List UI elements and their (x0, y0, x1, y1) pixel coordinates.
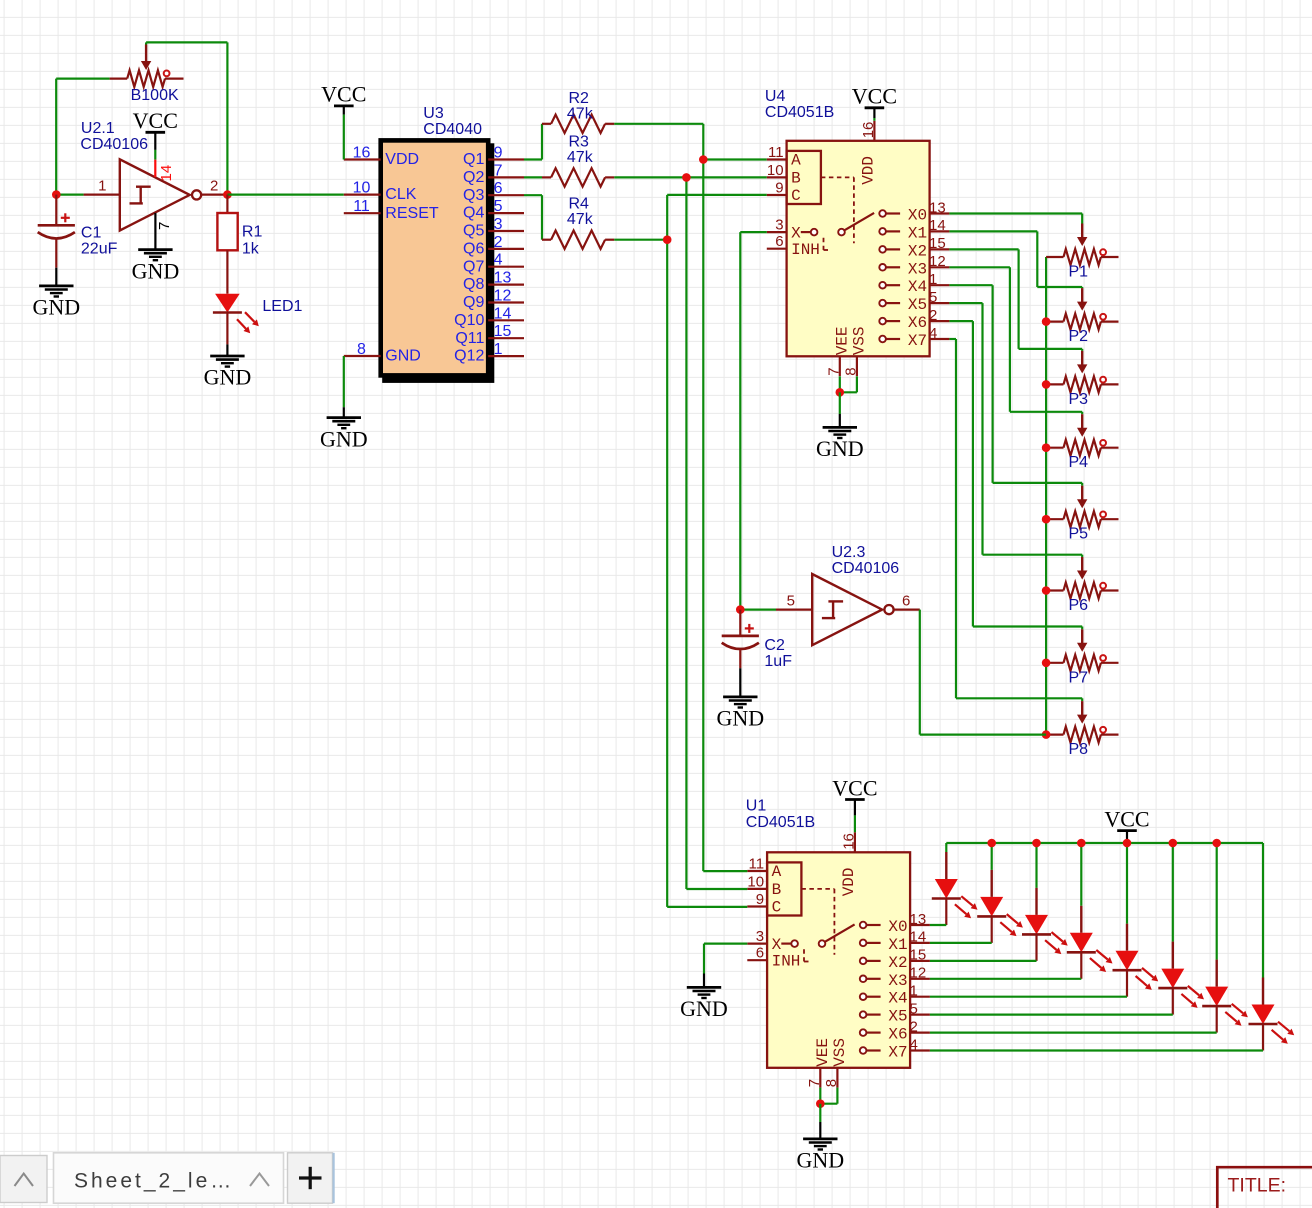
svg-text:GND: GND (204, 365, 252, 390)
svg-text:LED1: LED1 (262, 298, 302, 315)
junction P6 (1042, 586, 1051, 595)
svg-text:16: 16 (860, 122, 877, 139)
mux U1 VDD pin 16 (854, 832, 856, 852)
wire anode D2 (991, 843, 993, 870)
op-amp U2.1 input pin 1 (84, 194, 120, 196)
svg-text:6: 6 (494, 180, 503, 197)
LED D1 (945, 852, 947, 879)
mux U4 switch (801, 231, 811, 233)
LED D3 (1035, 888, 1037, 915)
svg-text:X1: X1 (908, 224, 927, 242)
wire A to U1 (703, 870, 747, 872)
svg-text:Q1: Q1 (463, 151, 484, 168)
svg-text:Q8: Q8 (463, 276, 484, 293)
bus C down to U1 (666, 240, 668, 907)
wire anode D4 (1080, 843, 1082, 906)
svg-text:47k: 47k (567, 149, 594, 166)
mux U4 body (787, 141, 930, 356)
svg-text:CD4051B: CD4051B (746, 814, 815, 831)
counter U3 shadow (382, 143, 494, 383)
potentiometer P5 (1046, 518, 1063, 520)
mux U4 VDD pin 16 (873, 121, 875, 141)
mux U4 control dashes (821, 176, 854, 178)
svg-text:5: 5 (929, 289, 937, 306)
LED LED1 (215, 294, 240, 313)
capacitor C1 bottom lead (55, 240, 57, 268)
svg-text:X4: X4 (888, 990, 907, 1008)
svg-text:Q9: Q9 (463, 294, 484, 311)
junction P3 (1042, 380, 1051, 389)
junction node B (682, 173, 691, 182)
wire X3 U1 to D4 (930, 978, 1081, 980)
ground C1 (39, 284, 73, 287)
capacitor C2 (722, 635, 759, 638)
svg-text:3: 3 (775, 217, 783, 234)
svg-text:10: 10 (767, 162, 784, 179)
wire U1 X to ground (704, 942, 747, 944)
svg-text:16: 16 (840, 833, 857, 850)
svg-text:11: 11 (768, 144, 784, 161)
wire X7 U1 to D8 (930, 1049, 1263, 1051)
wire Q2 to R3 (524, 176, 542, 178)
svg-text:Sheet_2_le…: Sheet_2_le… (74, 1170, 234, 1193)
svg-text:U2.1: U2.1 (81, 120, 115, 137)
LED D8 cathode lead (1262, 1024, 1264, 1051)
svg-text:10: 10 (353, 180, 371, 197)
LED D6 cathode lead (1172, 988, 1174, 1015)
svg-text:8: 8 (823, 1079, 840, 1087)
svg-text:5: 5 (910, 1000, 918, 1017)
capacitor C2 bottom lead (739, 650, 741, 668)
svg-text:CD4040: CD4040 (423, 121, 482, 138)
counter U3 right pins Q1-Q12 (488, 158, 524, 160)
tab pane-collapse button (0, 1156, 47, 1203)
resistor R1 lead top (226, 195, 228, 214)
potentiometer P7 (1046, 662, 1063, 664)
svg-text:GND: GND (385, 348, 421, 365)
wire U4 VSS (856, 376, 858, 392)
VCC rail (946, 842, 1263, 844)
svg-text:GND: GND (796, 1148, 844, 1173)
svg-text:Q5: Q5 (463, 223, 484, 240)
mux U4 VEE VSS pins (839, 356, 841, 376)
svg-text:GND: GND (680, 996, 728, 1021)
LED D7 (1215, 960, 1217, 987)
svg-text:X2: X2 (908, 242, 927, 260)
svg-text:B100K: B100K (131, 87, 179, 104)
wire VCC to pin 14 (154, 150, 156, 160)
svg-text:U2.3: U2.3 (832, 544, 866, 561)
resistor R4 (542, 239, 551, 241)
svg-text:P7: P7 (1069, 669, 1089, 686)
wire U3 GND pin (343, 356, 345, 407)
potentiometer P4 (1046, 447, 1063, 449)
svg-text:13: 13 (929, 199, 946, 216)
svg-text:VDD: VDD (859, 156, 877, 185)
wire X2 to P3 wiper (949, 248, 1018, 250)
svg-text:14: 14 (494, 305, 512, 322)
junction P4 (1042, 443, 1051, 452)
svg-text:14: 14 (929, 217, 946, 234)
bus B down to U1 (685, 177, 687, 889)
new sheet button (288, 1153, 333, 1203)
svg-text:P4: P4 (1069, 454, 1089, 471)
svg-text:16: 16 (353, 145, 371, 162)
junction rail D4 (1077, 839, 1086, 848)
resistor R1 (217, 213, 237, 250)
wire C to U1 (667, 906, 747, 908)
svg-text:8: 8 (357, 341, 366, 358)
junction rail D2 (987, 839, 996, 848)
LED D4 (1080, 906, 1082, 933)
wire VCC to U4 VDD (873, 118, 875, 121)
svg-text:9: 9 (494, 145, 503, 162)
LED D1 cathode lead (945, 899, 947, 926)
svg-text:X7: X7 (908, 332, 927, 350)
inverter U2.3 (812, 574, 882, 645)
wire X0 to P1 wiper (949, 212, 1082, 214)
svg-text:VEE: VEE (814, 1038, 832, 1067)
svg-text:Q10: Q10 (454, 312, 484, 329)
svg-text:CD4051B: CD4051B (765, 104, 834, 121)
svg-text:11: 11 (749, 856, 765, 873)
junction C1 input (52, 190, 61, 199)
LED D5 (1126, 924, 1128, 951)
wire X1 to P2 wiper (949, 230, 1037, 232)
wire U2.3 out to P8 (919, 610, 921, 735)
LED D8 (1262, 978, 1264, 1005)
wire feedback top (146, 41, 227, 43)
svg-text:Q12: Q12 (454, 348, 484, 365)
svg-text:X0: X0 (888, 918, 907, 936)
svg-text:47k: 47k (567, 211, 594, 228)
junction P5 (1042, 515, 1051, 524)
junction U2.1 output (223, 190, 232, 199)
wire output to CLK (227, 194, 343, 196)
svg-text:GND: GND (32, 295, 80, 320)
svg-text:7: 7 (825, 367, 842, 375)
svg-text:4: 4 (910, 1036, 918, 1053)
junction U4 ground (836, 388, 845, 397)
wire X6 to P7 wiper (949, 320, 973, 322)
svg-text:Q3: Q3 (463, 187, 484, 204)
svg-text:Q11: Q11 (455, 330, 484, 347)
wire B to U1 (686, 888, 747, 890)
svg-text:C2: C2 (764, 637, 785, 654)
wire pot left vertical (55, 79, 57, 195)
svg-text:B: B (791, 170, 801, 188)
resistor R3 (542, 176, 551, 178)
svg-text:X1: X1 (888, 936, 907, 954)
svg-text:X6: X6 (908, 314, 927, 332)
wire U1 VSS (836, 1088, 838, 1104)
junction P8 (1042, 730, 1051, 739)
svg-text:VCC: VCC (133, 108, 178, 133)
svg-text:RESET: RESET (385, 205, 439, 222)
LED D2 (991, 870, 993, 897)
mux U1 control dashes (801, 888, 834, 890)
svg-text:VDD: VDD (840, 867, 858, 896)
svg-text:VCC: VCC (832, 775, 877, 800)
svg-text:1: 1 (494, 341, 503, 358)
pot bus vertical (1045, 257, 1047, 735)
potentiometer P2 (1046, 321, 1063, 323)
wire feedback right (226, 42, 228, 194)
junction rail D5 (1123, 839, 1132, 848)
capacitor C1 (38, 224, 75, 227)
ground U2.1 pin7 (138, 248, 172, 251)
svg-text:7: 7 (156, 222, 173, 230)
node B wire to U4 (686, 176, 766, 178)
svg-text:13: 13 (910, 911, 927, 928)
svg-text:P6: P6 (1069, 597, 1089, 614)
LED D5 cathode lead (1126, 970, 1128, 997)
svg-text:U3: U3 (423, 105, 444, 122)
capacitor C2 lead (739, 610, 741, 636)
svg-text:7: 7 (494, 162, 503, 179)
wire R3 to node B (614, 176, 686, 178)
junction rail D7 (1212, 839, 1221, 848)
svg-text:VCC: VCC (852, 84, 897, 109)
wire anode D8 (1262, 843, 1264, 978)
svg-text:VCC: VCC (1104, 806, 1149, 831)
wire X1 U1 to D2 (930, 942, 992, 944)
svg-text:7: 7 (806, 1079, 823, 1087)
wire U4 ground (839, 392, 841, 414)
svg-text:3: 3 (756, 928, 764, 945)
wire X0 U1 to D1 (930, 924, 946, 926)
svg-text:22uF: 22uF (81, 241, 118, 258)
potentiometer P6 (1046, 589, 1063, 591)
ground U1 (803, 1138, 837, 1141)
svg-text:X5: X5 (908, 296, 927, 314)
svg-text:INH: INH (772, 952, 801, 970)
LED D2 cathode lead (991, 916, 993, 943)
wire X3 to P4 wiper (949, 266, 1010, 268)
wire U4 VEE (839, 376, 841, 392)
ground LED1 (210, 355, 244, 358)
junction rail D6 (1169, 839, 1178, 848)
svg-text:C: C (791, 187, 801, 205)
resistor R2 (542, 123, 551, 125)
counter U3 left pins (344, 158, 381, 160)
svg-text:11: 11 (353, 198, 370, 215)
mux U1 VEE VSS pins (819, 1068, 821, 1088)
wire C2 node to U2.3 (740, 608, 776, 610)
svg-text:15: 15 (910, 947, 927, 964)
svg-text:A: A (791, 152, 801, 170)
potentiometer B100K wiper wire (145, 42, 147, 44)
svg-text:6: 6 (775, 233, 783, 250)
junction P2 (1042, 317, 1051, 326)
wire X5 to P6 wiper (949, 302, 982, 304)
svg-text:A: A (772, 863, 782, 881)
bus A down to U1 (702, 160, 704, 872)
ground U4 (823, 426, 857, 429)
svg-text:GND: GND (816, 436, 864, 461)
svg-text:Q6: Q6 (463, 241, 484, 258)
svg-text:Q7: Q7 (463, 258, 484, 275)
sheet tab (54, 1153, 284, 1203)
wire X5 U1 to D6 (930, 1013, 1173, 1015)
svg-text:X0: X0 (908, 207, 927, 225)
inverter U2.3 input pin 5 (776, 608, 812, 610)
svg-text:1: 1 (910, 983, 918, 1000)
svg-text:CD40106: CD40106 (80, 136, 148, 153)
wire U2.1 input (56, 194, 83, 196)
ground U3 (327, 416, 361, 419)
svg-text:TITLE:: TITLE: (1228, 1174, 1287, 1196)
svg-text:9: 9 (756, 891, 764, 908)
wire anode D6 (1172, 843, 1174, 942)
wire Q3 to R4 (524, 194, 542, 196)
svg-text:12: 12 (494, 288, 512, 305)
mux U4 channels X0-X7 (879, 210, 886, 217)
svg-text:X: X (791, 224, 801, 242)
svg-text:47k: 47k (567, 105, 594, 122)
svg-text:GND: GND (320, 426, 368, 451)
wire R2 to node A (614, 123, 703, 125)
junction node C (663, 235, 672, 244)
op-amp U2.1 output pin 2 (201, 194, 227, 196)
svg-text:3: 3 (494, 216, 503, 233)
LED D3 cathode lead (1035, 934, 1037, 961)
junction P7 (1042, 659, 1051, 668)
wire VCC to U3 VDD (343, 115, 345, 160)
svg-text:15: 15 (494, 323, 512, 340)
svg-text:P2: P2 (1069, 328, 1089, 345)
svg-text:12: 12 (929, 253, 946, 270)
LED D7 cathode lead (1216, 1006, 1218, 1033)
svg-text:15: 15 (929, 235, 946, 252)
wire U1 VEE (819, 1088, 821, 1104)
pin 14 red (154, 160, 156, 177)
svg-text:X7: X7 (888, 1044, 907, 1062)
svg-text:2: 2 (929, 307, 937, 324)
svg-text:P3: P3 (1069, 391, 1089, 408)
svg-text:14: 14 (910, 929, 927, 946)
pin 7 black (154, 213, 156, 250)
counter U3 body (381, 140, 489, 375)
ground U1 X (687, 986, 721, 989)
title block border (1217, 1167, 1312, 1208)
svg-text:1uF: 1uF (764, 653, 792, 670)
svg-text:X2: X2 (888, 954, 907, 972)
wire X4 U1 to D5 (930, 996, 1127, 998)
svg-text:R1: R1 (242, 224, 263, 241)
svg-text:8: 8 (843, 367, 860, 375)
wire anode D7 (1216, 843, 1218, 960)
svg-text:2: 2 (494, 234, 503, 251)
wire Q1 to R2 (524, 158, 542, 160)
junction node A (699, 155, 708, 164)
svg-text:U4: U4 (765, 88, 786, 105)
svg-text:Q2: Q2 (463, 169, 484, 186)
mux U1 channels X0-X7 (860, 922, 867, 929)
svg-text:9: 9 (775, 180, 783, 197)
svg-text:C: C (772, 899, 782, 917)
svg-text:5: 5 (494, 198, 503, 215)
svg-text:X3: X3 (888, 972, 907, 990)
potentiometer P8 (1046, 733, 1063, 735)
svg-text:P1: P1 (1069, 264, 1089, 281)
svg-text:VEE: VEE (833, 326, 851, 355)
svg-text:1: 1 (98, 177, 106, 194)
wire U4 X control (740, 231, 767, 233)
svg-text:CLK: CLK (385, 186, 416, 203)
wire X7 to P8 wiper (949, 338, 956, 340)
LED1 cathode lead (226, 313, 228, 345)
svg-text:10: 10 (747, 873, 764, 890)
wire R4 to node C (614, 239, 667, 241)
junction U1 ground (816, 1099, 825, 1108)
wire VCC to U1 VDD (854, 815, 856, 832)
mux U1 body (767, 852, 910, 1068)
svg-text:2: 2 (210, 177, 218, 194)
svg-text:14: 14 (158, 165, 175, 182)
op-amp U2.1 (120, 159, 190, 230)
wire anode D1 (945, 843, 947, 852)
svg-text:U1: U1 (746, 798, 767, 815)
mux U1 switch (781, 942, 791, 944)
svg-text:GND: GND (132, 258, 180, 283)
svg-text:X5: X5 (888, 1008, 907, 1026)
svg-text:GND: GND (716, 706, 764, 731)
svg-text:INH: INH (791, 241, 820, 259)
mux U4 pins A B C X INH (767, 158, 787, 160)
svg-text:B: B (772, 881, 782, 899)
svg-text:X3: X3 (908, 260, 927, 278)
svg-text:6: 6 (902, 592, 910, 609)
svg-text:VDD: VDD (385, 151, 419, 168)
svg-text:1: 1 (929, 271, 937, 288)
wire X2 U1 to D3 (930, 960, 1037, 962)
wire anode D3 (1035, 843, 1037, 888)
svg-text:P5: P5 (1069, 526, 1089, 543)
potentiometer P1 (1046, 256, 1063, 258)
mux U4 address block (787, 151, 821, 204)
ground C2 (723, 696, 757, 699)
mux U1 pins A B C X INH (747, 870, 767, 872)
svg-text:C1: C1 (81, 225, 102, 242)
potentiometer B100K (110, 77, 128, 79)
svg-text:VCC: VCC (321, 82, 366, 107)
svg-text:P8: P8 (1069, 741, 1089, 758)
svg-text:2: 2 (910, 1018, 918, 1035)
svg-text:6: 6 (756, 945, 764, 962)
svg-text:VSS: VSS (831, 1038, 849, 1067)
node A wire to U4 (703, 158, 767, 160)
svg-text:4: 4 (494, 252, 503, 269)
wire anode D5 (1126, 843, 1128, 924)
inverter U2.3 output pin 6 (894, 608, 920, 610)
junction C2 (736, 605, 745, 614)
wire X4 to P5 wiper (949, 284, 992, 286)
svg-text:X4: X4 (908, 278, 927, 296)
LED D6 (1172, 942, 1174, 969)
junction rail D3 (1032, 839, 1041, 848)
svg-text:X: X (772, 936, 782, 954)
svg-text:12: 12 (910, 965, 927, 982)
svg-text:5: 5 (787, 592, 795, 609)
wire U1 ground (819, 1104, 821, 1122)
potentiometer P3 (1046, 383, 1063, 385)
wire X6 U1 to D7 (930, 1031, 1217, 1033)
svg-text:13: 13 (494, 270, 512, 287)
svg-text:CD40106: CD40106 (832, 560, 900, 577)
svg-text:1k: 1k (242, 241, 260, 258)
capacitor C1 lead (55, 195, 57, 226)
